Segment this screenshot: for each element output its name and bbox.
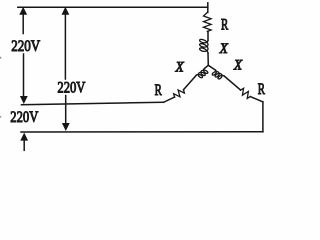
svg-text:R: R [155,82,163,99]
svg-text:X: X [175,59,185,75]
svg-text:R: R [258,81,266,98]
svg-text:220V: 220V [10,109,38,126]
svg-text:X: X [233,58,243,74]
svg-text:R: R [221,17,229,34]
svg-text:220V: 220V [11,38,40,55]
svg-text:X: X [219,41,229,57]
svg-text:220V: 220V [57,80,85,97]
